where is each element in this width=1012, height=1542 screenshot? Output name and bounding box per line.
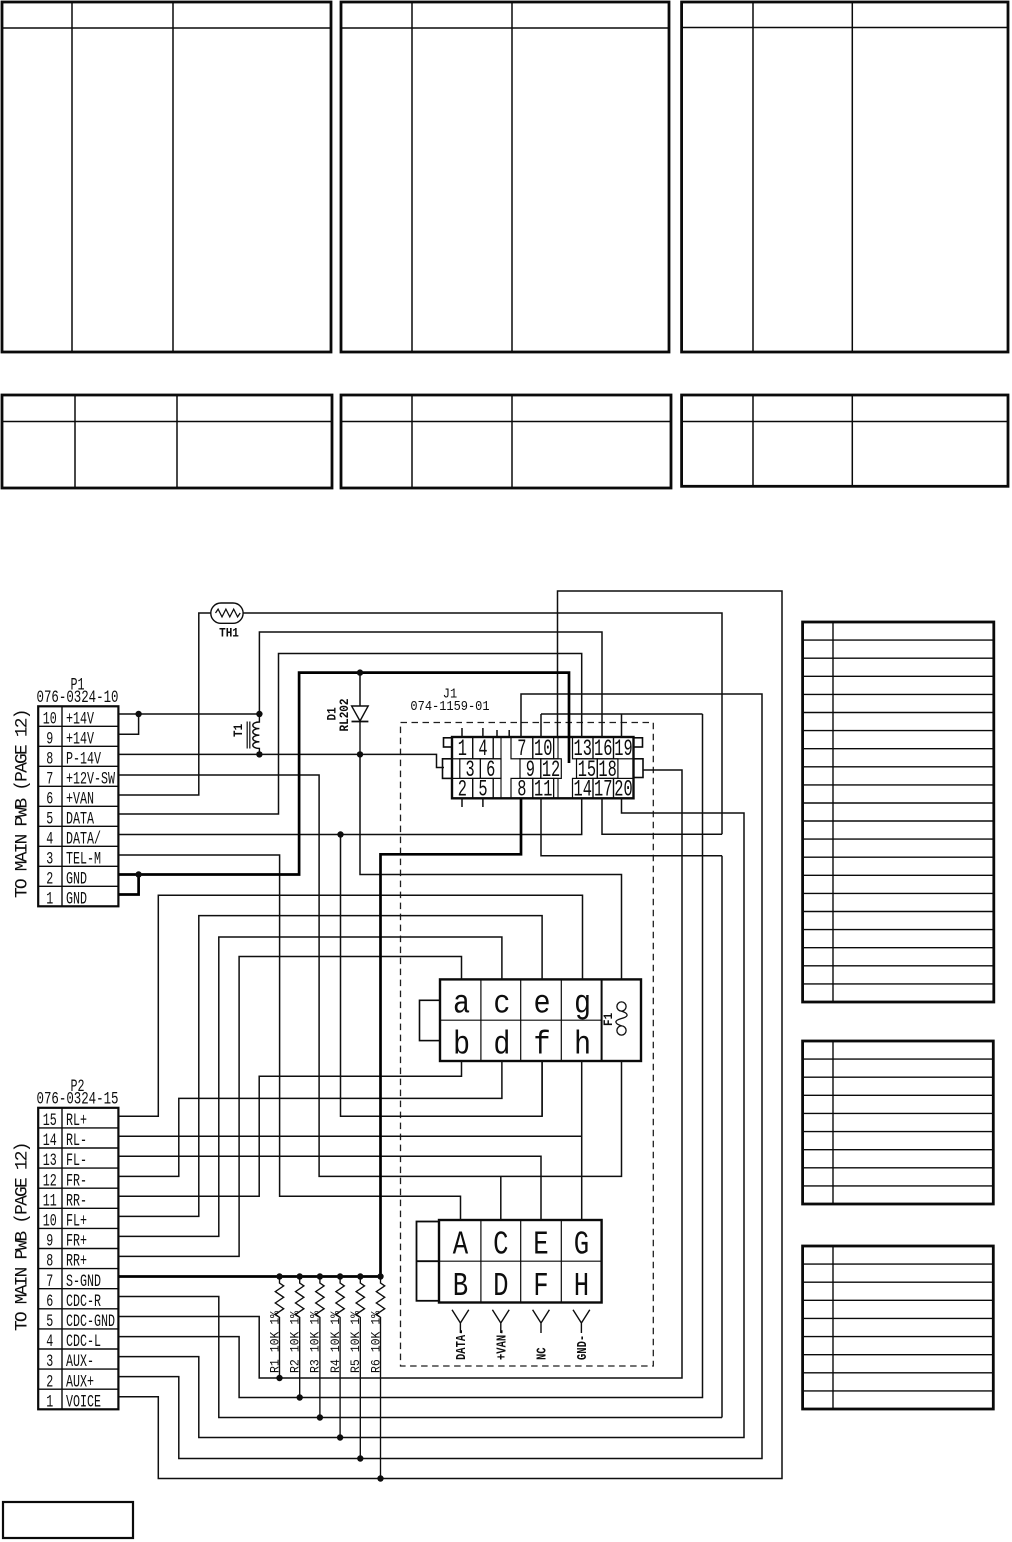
table top-right (empty parts table) bbox=[682, 2, 1008, 352]
wire P2 pin10 FL+ up to e pin bbox=[119, 916, 542, 1217]
svg-text:c: c bbox=[493, 986, 510, 1024]
resistor R5 10K 1% bbox=[349, 1277, 365, 1459]
svg-text:1: 1 bbox=[46, 888, 53, 909]
svg-text:3: 3 bbox=[46, 1351, 53, 1372]
dashed boundary box around J1/a-h/A-H bbox=[401, 723, 654, 1367]
A-H left tab (2 cells) bbox=[417, 1222, 440, 1301]
svg-text:GND-: GND- bbox=[575, 1335, 591, 1360]
junction bbox=[297, 1394, 303, 1400]
wire P2 pin15 RL+ up to g pin bbox=[119, 895, 583, 1116]
junction bbox=[317, 1273, 323, 1279]
svg-text:S-GND: S-GND bbox=[66, 1270, 101, 1291]
svg-text:5: 5 bbox=[46, 808, 53, 829]
wire P1 pin5 DATA up to J1 pin13 top bbox=[119, 654, 582, 815]
junction bbox=[357, 669, 363, 675]
svg-text:9: 9 bbox=[46, 728, 53, 749]
junction bbox=[337, 1434, 343, 1440]
wire P2 pin5 CDC-GND down to R1 rail east up to J1 right tab bbox=[119, 770, 682, 1378]
diode D1 RL202 bbox=[325, 673, 369, 755]
wire P2 pin3 AUX- down to R4 rail east to J1 pin20 route bbox=[119, 798, 744, 1437]
svg-text:11: 11 bbox=[43, 1190, 57, 1211]
svg-text:f: f bbox=[534, 1027, 551, 1065]
svg-text:CDC-GND: CDC-GND bbox=[66, 1311, 115, 1332]
wire P2 pin14 RL- to h/G column bbox=[119, 1135, 582, 1137]
antenna pin symbol NC bbox=[533, 1310, 551, 1360]
wire P1 pin8 P-14V through T1 bottom and D1 bottom to J1 left tab bbox=[119, 754, 444, 767]
svg-text:R1 10K 1%: R1 10K 1% bbox=[268, 1310, 283, 1373]
svg-text:9: 9 bbox=[526, 757, 535, 783]
antenna pin symbol GND bbox=[573, 1310, 591, 1360]
svg-text:9: 9 bbox=[46, 1230, 53, 1251]
connector P2 076-0324-15 (15-pin) bbox=[37, 1076, 119, 1413]
junction bbox=[317, 1414, 323, 1420]
svg-text:3: 3 bbox=[466, 757, 475, 783]
svg-text:076-0324-15: 076-0324-15 bbox=[37, 1091, 119, 1109]
junction bbox=[276, 1375, 282, 1381]
svg-text:15: 15 bbox=[43, 1110, 57, 1131]
svg-text:P-14V: P-14V bbox=[66, 748, 101, 769]
svg-text:RR+: RR+ bbox=[66, 1250, 87, 1271]
junction bbox=[337, 1273, 343, 1279]
svg-text:+VAN: +VAN bbox=[66, 788, 94, 809]
svg-text:b: b bbox=[453, 1027, 470, 1065]
svg-text:H: H bbox=[574, 1267, 589, 1305]
svg-text:RL202: RL202 bbox=[337, 699, 352, 732]
table row2-left (empty) bbox=[2, 395, 332, 488]
wire DATA/ branch down to f pin bbox=[341, 835, 543, 1117]
connector a-h (8-pin with fuse F1) bbox=[420, 979, 642, 1064]
junction bbox=[256, 711, 262, 717]
svg-text:NC: NC bbox=[534, 1347, 550, 1360]
svg-text:F: F bbox=[533, 1267, 548, 1305]
table top-left (empty parts table) bbox=[2, 2, 331, 352]
svg-text:TH1: TH1 bbox=[219, 626, 239, 641]
svg-text:10: 10 bbox=[43, 708, 57, 729]
svg-text:8: 8 bbox=[46, 1250, 53, 1271]
junction bbox=[357, 1273, 363, 1279]
svg-text:6: 6 bbox=[486, 757, 495, 783]
svg-text:RL+: RL+ bbox=[66, 1110, 87, 1131]
svg-text:A: A bbox=[453, 1226, 469, 1264]
svg-text:F1: F1 bbox=[601, 1013, 616, 1026]
wire T1 top up and right to J1 pin16 top bbox=[259, 632, 602, 737]
table row2-right (empty) bbox=[682, 395, 1008, 486]
svg-text:+14V: +14V bbox=[66, 708, 94, 729]
thermistor TH1 bbox=[211, 603, 243, 641]
svg-text:R2 10K 1%: R2 10K 1% bbox=[288, 1310, 303, 1373]
bold wire P1 pin1 GND jog to pin2 line bbox=[119, 875, 139, 895]
table right bottom (9 rows, empty) bbox=[803, 1246, 994, 1409]
junction bbox=[357, 1455, 363, 1461]
svg-text:7: 7 bbox=[46, 768, 53, 789]
svg-text:RL-: RL- bbox=[66, 1130, 87, 1151]
J1 pin 5 bottom stub bbox=[482, 798, 484, 807]
wire P2 pin4 CDC-L down to R2 rail east up to J1 pin19 route bbox=[119, 714, 703, 1398]
svg-text:d: d bbox=[493, 1027, 510, 1065]
svg-text:D: D bbox=[493, 1267, 508, 1305]
junction bbox=[377, 1273, 383, 1279]
wire P2 pin2 AUX+ down to R5 rail east to J1 pin7 route bbox=[119, 694, 762, 1459]
svg-text:R6 10K 1%: R6 10K 1% bbox=[369, 1310, 384, 1373]
wire C-pin tap on +12V-SW line bbox=[500, 1176, 502, 1220]
wire P2 pin11 RR- up to b pin bbox=[119, 1061, 462, 1196]
svg-text:C: C bbox=[493, 1226, 508, 1264]
connector A-H (8-pin) bbox=[417, 1220, 602, 1305]
wire TH1 right to east vertical x722 bbox=[243, 613, 722, 834]
bold wire P1 pin2 GND to J1 pin15 area (via D1 top) bbox=[119, 673, 569, 875]
wire D1 bottom down-right to F1 top bbox=[360, 754, 622, 979]
svg-text:+12V-SW: +12V-SW bbox=[66, 768, 116, 789]
connector P1 076-0324-10 (10-pin) bbox=[37, 674, 119, 909]
wire P1 pin4 DATA/ to J1 pin14 bottom bbox=[119, 798, 582, 834]
svg-text:4: 4 bbox=[46, 828, 53, 849]
resistor R6 10K 1% bbox=[369, 1277, 385, 1479]
fuse F1 bbox=[601, 1002, 627, 1035]
svg-text:3: 3 bbox=[46, 848, 53, 869]
svg-text:FR+: FR+ bbox=[66, 1230, 87, 1251]
svg-text:e: e bbox=[534, 986, 551, 1024]
svg-text:VOICE: VOICE bbox=[66, 1391, 101, 1412]
wire P1 pin7 +12V-SW down-right to F1 bottom (via x319) bbox=[119, 775, 622, 1176]
wire h bottom to G top through RL- line bbox=[581, 1061, 583, 1220]
svg-text:5: 5 bbox=[46, 1311, 53, 1332]
svg-text:074-1159-01: 074-1159-01 bbox=[410, 698, 489, 714]
table row2-middle (empty) bbox=[341, 395, 671, 488]
svg-text:1: 1 bbox=[46, 1391, 53, 1412]
svg-text:a: a bbox=[453, 986, 470, 1024]
wire P2 pin9 FR+ up to c pin bbox=[119, 937, 502, 1236]
junction bbox=[337, 831, 343, 837]
svg-text:GND: GND bbox=[66, 868, 87, 889]
label TO MAIN PWB (PAGE 12) for P1, rotated bbox=[13, 710, 33, 898]
svg-text:DATA: DATA bbox=[66, 808, 95, 829]
svg-text:2: 2 bbox=[46, 1371, 53, 1392]
svg-text:g: g bbox=[574, 986, 591, 1024]
svg-text:T1: T1 bbox=[231, 724, 246, 737]
svg-text:G: G bbox=[574, 1226, 589, 1264]
resistor R4 10K 1% bbox=[328, 1277, 344, 1438]
svg-text:6: 6 bbox=[46, 788, 53, 809]
wire P1 pin9 +14V jog up to pin10 line bbox=[118, 714, 138, 734]
svg-text:FL-: FL- bbox=[66, 1150, 87, 1171]
svg-text:8: 8 bbox=[46, 748, 53, 769]
svg-text:AUX-: AUX- bbox=[66, 1351, 94, 1372]
svg-text:DATA/: DATA/ bbox=[66, 828, 101, 849]
svg-text:FL+: FL+ bbox=[66, 1210, 87, 1231]
svg-text:4: 4 bbox=[46, 1331, 53, 1352]
svg-text:GND: GND bbox=[66, 888, 87, 909]
svg-text:R5 10K 1%: R5 10K 1% bbox=[349, 1310, 364, 1373]
svg-text:DATA-: DATA- bbox=[454, 1329, 470, 1360]
wire P1 pin3 TEL-M down to A pin bbox=[119, 855, 461, 1220]
wire P2 pin12 FR- up to d pin bbox=[119, 1061, 502, 1176]
svg-text:R3 10K 1%: R3 10K 1% bbox=[308, 1310, 323, 1373]
wire P1 pin6 +VAN up to TH1 left bbox=[119, 613, 211, 795]
a-h left tab bbox=[420, 1000, 441, 1040]
wire P1 pin10 +14V to T1 top bbox=[118, 713, 259, 715]
table right tall (21 rows, empty) bbox=[803, 622, 994, 1002]
junction bbox=[135, 711, 141, 717]
svg-text:13: 13 bbox=[43, 1150, 57, 1171]
svg-text:12: 12 bbox=[43, 1170, 57, 1191]
label TO MAIN PWB (PAGE 12) for P2, rotated bbox=[13, 1143, 33, 1331]
svg-text:15: 15 bbox=[578, 757, 596, 783]
wire P2 pin1 VOICE down to R6 rail east to J1 top gap bbox=[119, 591, 782, 1479]
junction bbox=[135, 871, 141, 877]
bold wire P2 pin7 S-GND rail to resistor tops bbox=[119, 798, 521, 1276]
svg-text:+VAN-: +VAN- bbox=[494, 1329, 510, 1360]
svg-text:076-0324-10: 076-0324-10 bbox=[37, 689, 119, 707]
svg-text:10: 10 bbox=[43, 1210, 57, 1231]
svg-text:14: 14 bbox=[43, 1130, 57, 1151]
connector J1 074-1159-01 (20-pin) bbox=[410, 686, 643, 803]
table top-middle (empty parts table) bbox=[341, 2, 669, 352]
junction bbox=[276, 1273, 282, 1279]
table right middle (9 rows, empty) bbox=[803, 1041, 994, 1204]
junction bbox=[357, 751, 363, 757]
resistor R2 10K 1% bbox=[288, 1277, 304, 1398]
wire P2 pin6 CDC-R down to R3 rail east bbox=[119, 1297, 722, 1418]
svg-text:+14V: +14V bbox=[66, 728, 94, 749]
J1 narrow divider stubs bbox=[497, 730, 509, 737]
svg-text:h: h bbox=[574, 1027, 591, 1065]
junction bbox=[297, 1273, 303, 1279]
antenna pin symbol +VAN bbox=[492, 1310, 510, 1360]
svg-text:20: 20 bbox=[614, 777, 632, 803]
svg-text:E: E bbox=[533, 1226, 548, 1264]
wire P2 pin8 RR+ up to a pin bbox=[119, 957, 462, 1257]
svg-text:18: 18 bbox=[598, 757, 616, 783]
svg-text:RR-: RR- bbox=[66, 1190, 87, 1211]
svg-text:TO MAIN PWB (PAGE 12): TO MAIN PWB (PAGE 12) bbox=[13, 1143, 33, 1331]
svg-text:AUX+: AUX+ bbox=[66, 1371, 94, 1392]
wire P2 pin13 FL- to E pin bbox=[119, 1156, 541, 1220]
svg-text:FR-: FR- bbox=[66, 1170, 87, 1191]
resistor R1 10K 1% bbox=[268, 1277, 284, 1379]
box bottom-left (empty title box) bbox=[3, 1502, 133, 1538]
junction bbox=[256, 751, 262, 757]
svg-text:B: B bbox=[453, 1267, 468, 1305]
junction bbox=[377, 1475, 383, 1481]
wire J1 pin17 bottom stub to x722 bbox=[602, 798, 722, 834]
svg-text:2: 2 bbox=[46, 868, 53, 889]
J1 pin 1 top stub bbox=[461, 728, 463, 737]
svg-text:TO MAIN PWB (PAGE 12): TO MAIN PWB (PAGE 12) bbox=[13, 710, 33, 898]
svg-text:7: 7 bbox=[46, 1270, 53, 1291]
wire J1 pin11 bottom stub right to x722 down to CDC-R rail bbox=[541, 798, 722, 1417]
svg-text:CDC-R: CDC-R bbox=[66, 1290, 101, 1311]
svg-text:CDC-L: CDC-L bbox=[66, 1331, 101, 1352]
transformer/coil T1 bbox=[231, 714, 259, 754]
svg-text:6: 6 bbox=[46, 1290, 53, 1311]
J1 pin 4 top stub bbox=[482, 728, 484, 737]
svg-text:TEL-M: TEL-M bbox=[66, 848, 101, 869]
antenna pin symbol DATA bbox=[452, 1310, 470, 1360]
svg-text:R4 10K 1%: R4 10K 1% bbox=[328, 1310, 343, 1373]
J1 pin 2 bottom stub bbox=[461, 798, 463, 807]
resistor R3 10K 1% bbox=[308, 1277, 324, 1418]
wire f bottom stub bbox=[541, 1061, 543, 1116]
